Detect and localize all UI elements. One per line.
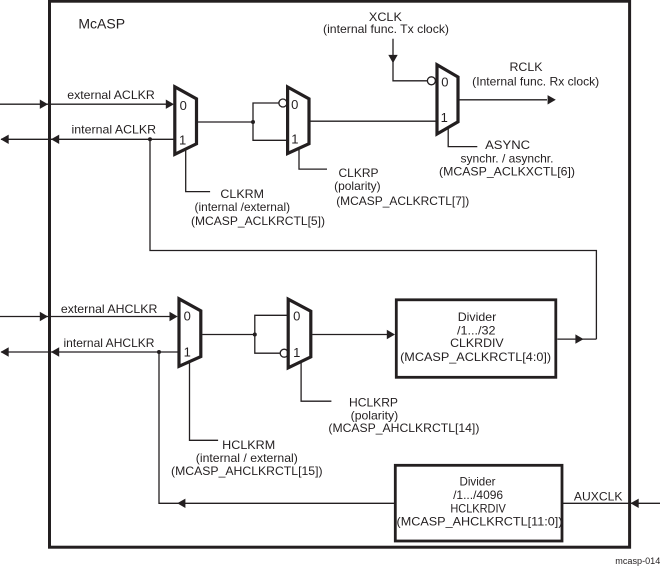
inverter bubble on mux U2 input 0 [279,99,287,107]
svg-text:Divider: Divider [460,474,496,488]
svg-text:0: 0 [184,309,191,324]
svg-text:McASP: McASP [78,16,125,32]
wire XCLK down to mux U3 input 0 [393,39,427,81]
svg-text:0: 0 [441,74,448,89]
node junction on internal ACLKR [148,137,152,141]
mux U4 HCLKRM [179,299,201,367]
wire node to mux U5 input 0 [255,315,288,334]
node junction after U1 [251,120,255,124]
svg-text:CLKRM: CLKRM [220,187,264,201]
wire node to mux U2 input 1 [253,122,288,140]
arrowhead divider CLKRDIV output [575,334,583,343]
wire external ACLKR [0,103,167,105]
svg-text:AUXCLK: AUXCLK [574,489,623,503]
svg-text:/1.../32: /1.../32 [457,323,496,337]
mux U2 CLKRP [288,87,309,154]
inverter bubble on mux U3 input 0 [427,77,435,85]
arrowhead external ACLKR at border [40,100,48,109]
svg-text:external ACLKR: external ACLKR [67,88,155,102]
mux U1 CLKRM [175,87,197,155]
svg-text:(MCASP_AHCLKRCTL[11:0]): (MCASP_AHCLKRCTL[11:0]) [397,515,563,529]
svg-text:1: 1 [293,345,300,360]
wire mux U1 output to node [198,121,253,123]
arrowhead XCLK downward [388,55,397,63]
wire node to CLKRP inverter bubble [253,103,279,122]
wire mux U2 output to mux U3 input 1 [310,120,437,122]
arrowhead RCLK [548,95,556,104]
svg-text:Divider: Divider [458,310,497,324]
svg-text:1: 1 [441,110,448,125]
svg-text:0: 0 [291,97,298,112]
svg-text:synchr. / asynchr.: synchr. / asynchr. [461,152,554,166]
svg-text:mcasp-014: mcasp-014 [615,556,660,566]
svg-text:internal AHCLKR: internal AHCLKR [64,336,155,350]
svg-text:HCLKRDIV: HCLKRDIV [450,501,506,515]
svg-text:1: 1 [291,132,298,147]
svg-text:(MCASP_AHCLKRCTL[14]): (MCASP_AHCLKRCTL[14]) [328,421,479,435]
wire mux U4 output to node [202,334,255,336]
node junction on internal AHCLKR [157,350,161,354]
svg-text:(MCASP_AHCLKRCTL[15]): (MCASP_AHCLKRCTL[15]) [171,464,323,478]
wire divider CLKRDIV output to feedback [557,338,596,340]
svg-text:(MCASP_ACLKXCTL[6]): (MCASP_ACLKXCTL[6]) [439,165,575,179]
arrowhead AUXCLK at border [631,499,639,508]
svg-text:1: 1 [184,345,191,360]
wire feedback from HCLKRDIV to internal AHCLKR [159,352,394,503]
svg-text:(MCASP_ACLKRCTL[4:0]): (MCASP_ACLKRCTL[4:0]) [400,350,551,364]
svg-text:(internal /external): (internal /external) [195,200,291,214]
node junction after U4 [253,333,257,337]
svg-text:CLKRP: CLKRP [339,166,379,180]
wire ASYNC control [448,129,477,147]
svg-text:(MCASP_ACLKRCTL[7]): (MCASP_ACLKRCTL[7]) [336,194,469,208]
arrowhead internal ACLKR at left edge [1,135,9,144]
wire HCLKRP control [301,363,331,402]
wire AUXCLK [562,502,660,504]
svg-text:CLKRDIV: CLKRDIV [450,336,504,350]
svg-text:HCLKRM: HCLKRM [222,438,275,452]
svg-text:(Internal func. Rx clock): (Internal func. Rx clock) [472,74,599,88]
wire internal AHCLKR [1,351,179,353]
mux U3 ASYNC select [437,65,458,134]
wire mux U5 output to divider CLKRDIV [312,334,388,336]
wire internal ACLKR [1,138,174,140]
arrowhead into divider CLKRDIV [387,330,395,339]
arrowhead external AHCLKR at border [40,312,48,321]
svg-text:(MCASP_ACLKRCTL[5]): (MCASP_ACLKRCTL[5]) [191,214,325,228]
arrowhead external AHCLKR at mux input 0 [170,312,178,321]
mux U5 HCLKRP [288,299,311,368]
svg-text:ASYNC: ASYNC [485,138,530,152]
wire HCLKRM control [190,363,219,441]
wire RCLK output [459,99,547,101]
wire CLKRM control [186,150,210,192]
arrowhead internal ACLKR at border [51,135,59,144]
arrowhead internal AHCLKR at left edge [1,347,9,356]
svg-text:0: 0 [180,98,187,113]
svg-text:RCLK: RCLK [510,60,543,74]
svg-text:(internal func. Tx clock): (internal func. Tx clock) [323,22,449,36]
svg-text:(polarity): (polarity) [334,179,381,193]
divider U6 CLKRDIV [396,300,556,378]
arrowhead external ACLKR at mux input 0 [166,100,174,109]
wire feedback from CLKRDIV to internal ACLKR [150,139,596,339]
svg-text:0: 0 [293,309,300,324]
wire CLKRP control [299,149,327,169]
inverter bubble on mux U5 input 1 [280,349,288,357]
wire node to HCLKRP inverter bubble [255,335,280,354]
svg-text:/1.../4096: /1.../4096 [453,488,503,502]
svg-text:internal ACLKR: internal ACLKR [72,123,157,137]
wire external AHCLKR [0,316,170,318]
divider U7 HCLKRDIV [395,465,562,541]
svg-text:external AHCLKR: external AHCLKR [61,302,158,316]
arrowhead internal AHCLKR at border [51,347,59,356]
svg-text:(internal / external): (internal / external) [196,451,298,465]
arrowhead feedback pointing left [177,499,185,508]
svg-text:1: 1 [179,132,186,147]
